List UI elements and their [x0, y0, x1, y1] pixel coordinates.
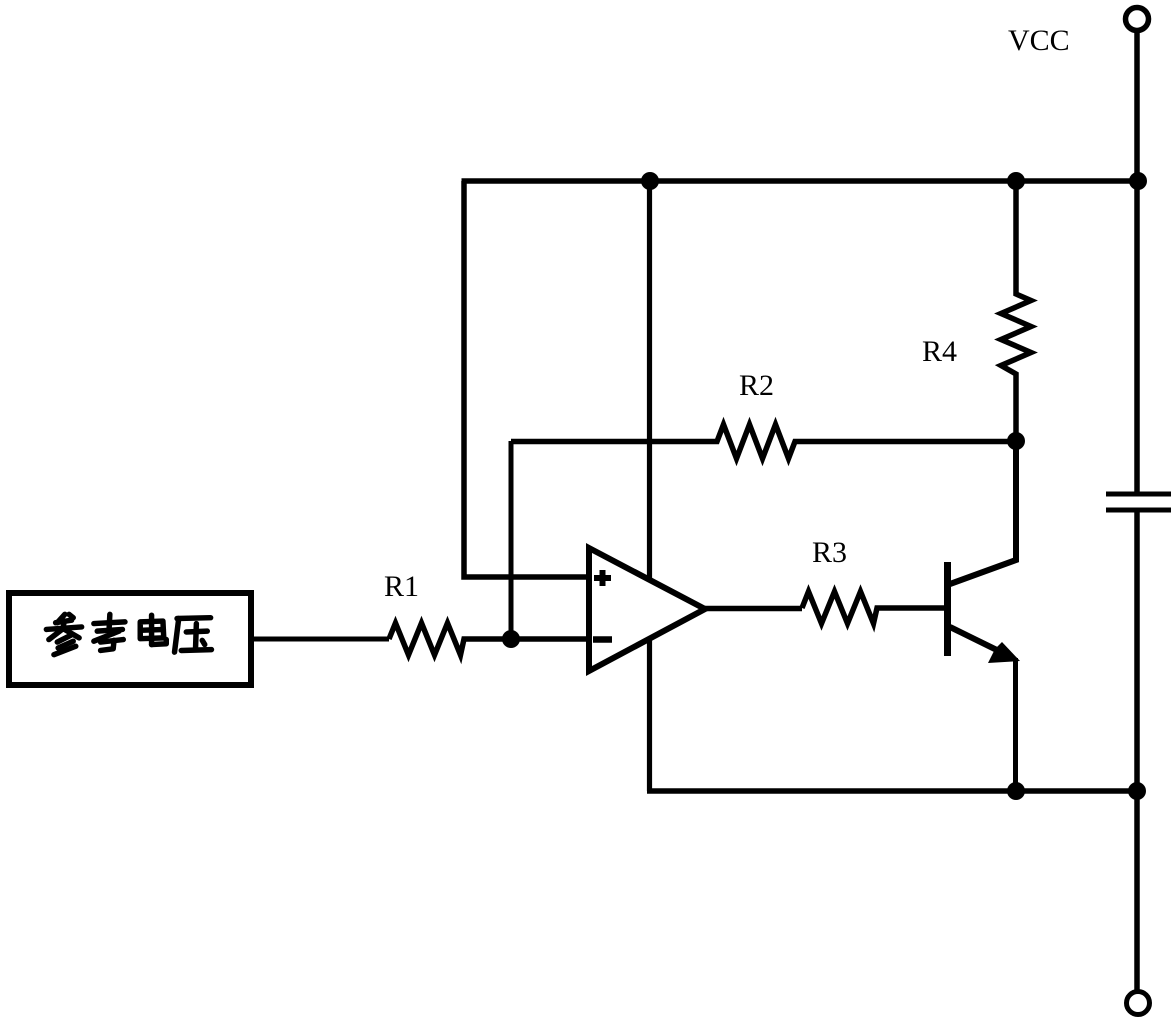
resistor R2 [511, 425, 1016, 459]
node: top rail / R4 [1007, 172, 1025, 190]
glyph DIAN 电 [140, 615, 166, 644]
wire: top rail [462, 178, 1140, 184]
node: top rail / middle vertical [641, 172, 659, 190]
transistor Q1 emitter with arrow [950, 627, 1005, 654]
wire: right rail bottom (capacitor bottom plate to bottom terminal) [1134, 510, 1140, 991]
capacitor C1 bottom plate [1106, 508, 1171, 513]
wire: right rail top (terminal to capacitor top plate) [1134, 31, 1140, 495]
svg-text:VCC: VCC [1008, 24, 1070, 57]
wire: bottom rail [647, 788, 1139, 794]
resistor R1 [389, 623, 592, 655]
wire: R2 left leg down to inverting input [509, 441, 514, 639]
glyph KAO 考 [94, 614, 125, 650]
glyph CAN 参 [46, 614, 81, 654]
input source box [9, 593, 251, 685]
node: emitter / bottom rail [1007, 782, 1025, 800]
node: top rail / right rail [1129, 172, 1147, 190]
wire: left vertical + positive input feed [464, 181, 592, 577]
transistor Q1 collector [950, 441, 1016, 584]
op-amp plus input mark [594, 570, 611, 586]
transistor Q1 base bar [944, 562, 951, 656]
svg-text:R1: R1 [384, 570, 419, 603]
wire: middle vertical (top rail to bottom rail through op-amp) [647, 181, 652, 791]
svg-text:R3: R3 [812, 536, 847, 569]
node: inverting input junction [502, 630, 520, 648]
op-amp U1 [589, 548, 705, 671]
node: R2 right / R4 bottom / collector [1007, 432, 1025, 450]
svg-text:R2: R2 [739, 369, 774, 402]
resistor R3 [802, 592, 947, 624]
svg-text:R4: R4 [922, 335, 957, 368]
wire: op-amp output to R3 [703, 606, 802, 612]
wire: box output to R1 [251, 637, 389, 642]
node: bottom rail / right rail [1128, 782, 1146, 800]
wire: emitter down to bottom rail [1013, 658, 1018, 791]
op-amp minus input mark [593, 636, 612, 643]
glyph YA 压 [175, 618, 212, 652]
capacitor C1 top plate [1106, 492, 1171, 497]
resistor R4 (vertical) [1001, 181, 1031, 441]
VCC terminal (top) [1126, 8, 1149, 31]
terminal (bottom) [1127, 992, 1150, 1015]
label 参考电压 (hand drawn glyphs) [46, 614, 211, 654]
